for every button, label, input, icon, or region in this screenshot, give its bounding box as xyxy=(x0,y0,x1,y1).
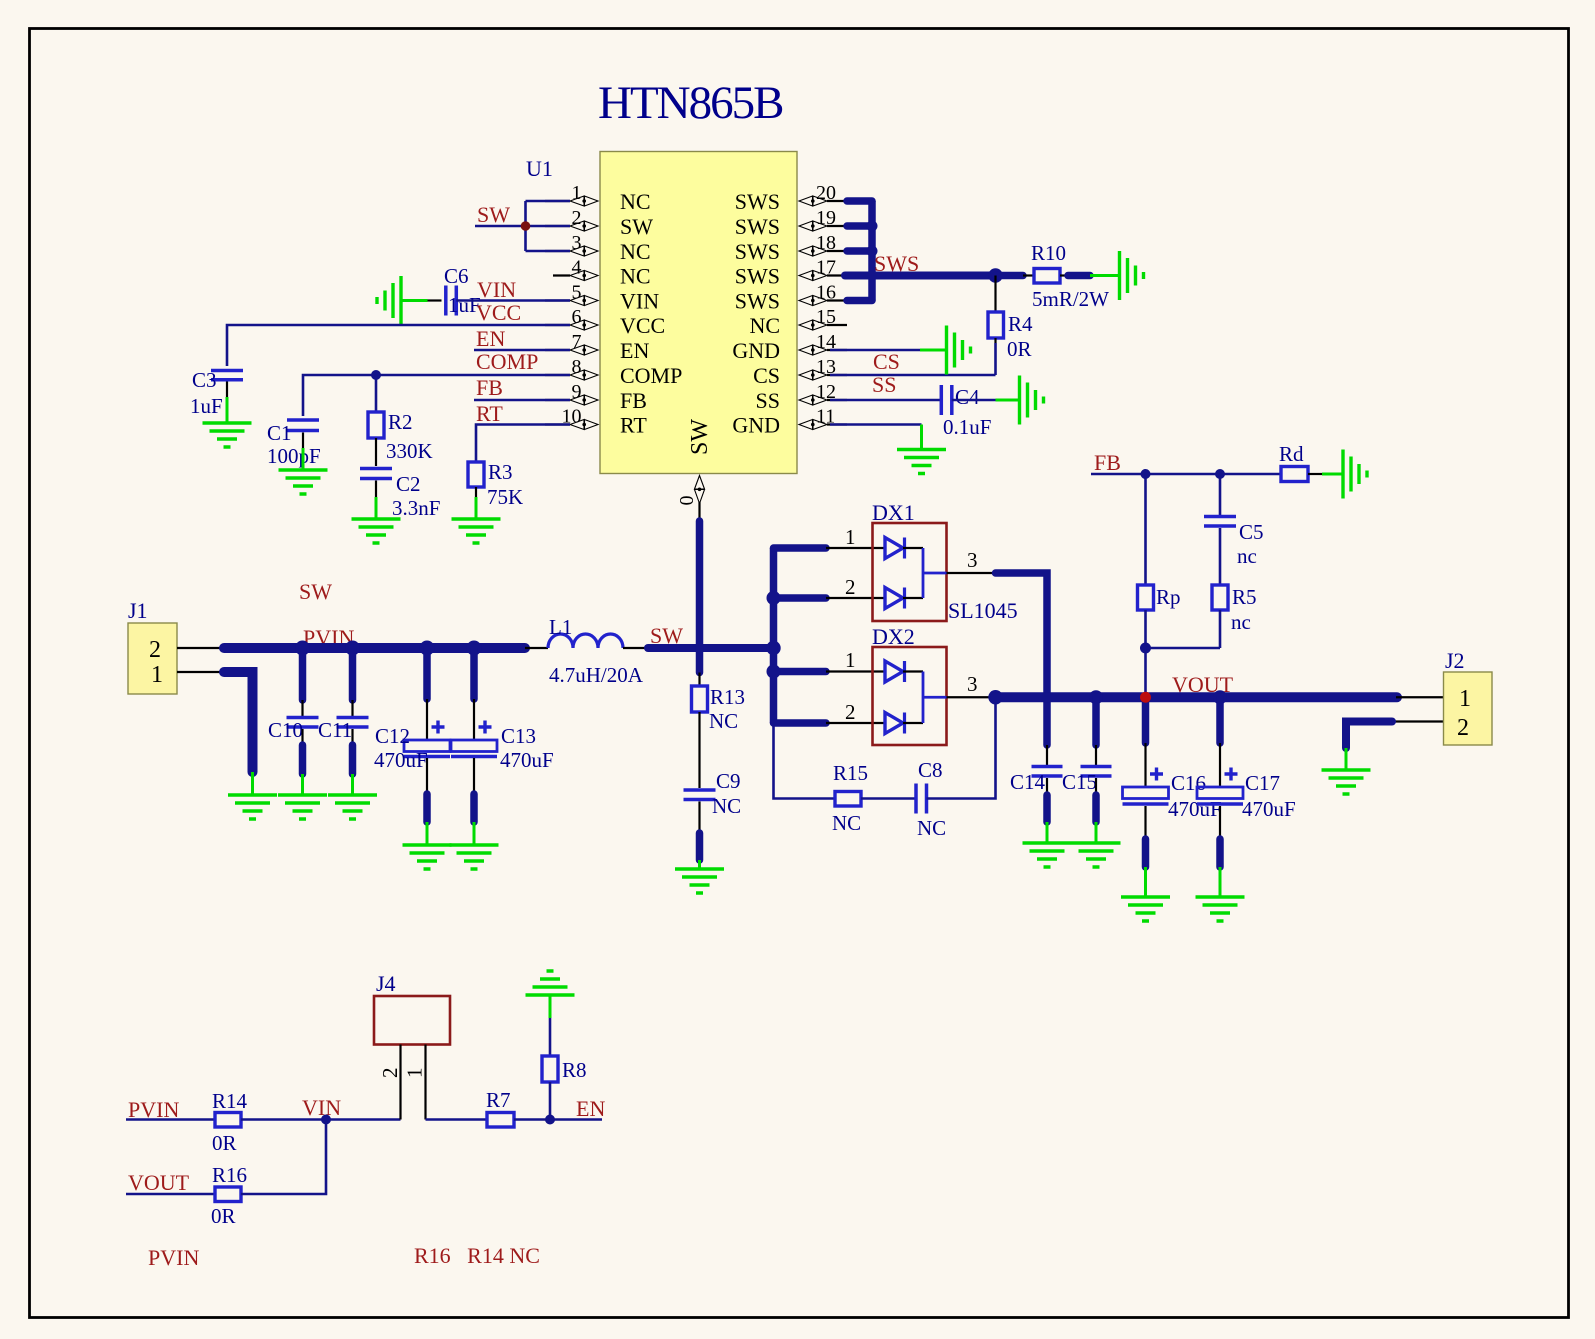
svg-text:FB: FB xyxy=(620,388,647,413)
wire EN pin7 xyxy=(474,326,570,351)
resistor R5 nc xyxy=(1212,585,1257,648)
svg-text:0.1uF: 0.1uF xyxy=(943,415,991,439)
svg-text:R8: R8 xyxy=(562,1058,587,1082)
svg-text:C2: C2 xyxy=(396,472,421,496)
ground (C16) xyxy=(1121,867,1170,921)
svg-text:SWS: SWS xyxy=(735,264,780,289)
svg-text:15: 15 xyxy=(816,306,836,328)
svg-text:3: 3 xyxy=(967,548,978,572)
capacitor C1 100pF xyxy=(267,420,321,468)
svg-text:SWS: SWS xyxy=(735,239,780,264)
ground (C9) xyxy=(675,860,724,893)
pin 6 VCC xyxy=(545,306,665,338)
svg-text:L1: L1 xyxy=(549,615,572,639)
svg-text:COMP: COMP xyxy=(476,349,538,374)
svg-text:1: 1 xyxy=(572,182,582,204)
svg-text:PVIN: PVIN xyxy=(148,1245,199,1270)
pin 20 SWS xyxy=(735,182,847,214)
IC U1 HTN865B xyxy=(526,152,797,474)
capacitor C8 NC xyxy=(916,697,996,840)
ground (C11) xyxy=(328,774,377,819)
svg-text:NC: NC xyxy=(709,709,738,733)
svg-text:100pF: 100pF xyxy=(267,444,321,468)
ground (R10) xyxy=(1090,251,1144,300)
ground (J2) xyxy=(1322,748,1371,794)
ground (C1) xyxy=(279,448,328,494)
wire EN xyxy=(514,1096,605,1125)
svg-text:EN: EN xyxy=(620,338,649,363)
svg-text:SWS: SWS xyxy=(735,214,780,239)
ground (R3) xyxy=(452,497,501,543)
wire GND pin14 xyxy=(830,349,920,352)
svg-text:GND: GND xyxy=(732,338,780,363)
svg-text:DX2: DX2 xyxy=(872,624,915,649)
svg-text:FB: FB xyxy=(1094,450,1121,475)
ground (C10) xyxy=(278,774,327,819)
wire VOUT to R16 xyxy=(126,1193,215,1196)
svg-text:2: 2 xyxy=(378,1068,402,1079)
ground (J1 pin1) xyxy=(228,772,277,819)
svg-text:19: 19 xyxy=(816,207,836,229)
svg-text:470uF: 470uF xyxy=(1242,797,1296,821)
svg-text:17: 17 xyxy=(816,257,836,279)
node SW (to pins 1-3) xyxy=(475,201,570,251)
ground (C3) xyxy=(203,397,252,447)
resistor R4 0R xyxy=(988,276,1033,376)
svg-text:C5: C5 xyxy=(1239,520,1264,544)
pin 1 NC xyxy=(545,182,651,214)
svg-text:R4: R4 xyxy=(1008,312,1033,336)
svg-text:0: 0 xyxy=(676,496,698,506)
svg-text:NC: NC xyxy=(749,313,780,338)
resistor Rd xyxy=(1279,442,1322,482)
wire RT pin10 xyxy=(476,401,570,450)
svg-text:SW: SW xyxy=(299,579,332,604)
ground (pin14) xyxy=(920,326,971,375)
capacitor C16 470uF xyxy=(1123,697,1222,867)
svg-text:2: 2 xyxy=(149,637,161,663)
svg-text:C10: C10 xyxy=(268,718,303,742)
ground (above R8, inverted) xyxy=(526,971,575,1018)
ground (C13) xyxy=(450,822,499,869)
svg-text:1: 1 xyxy=(403,1068,427,1079)
resistor R16 0R xyxy=(211,1163,247,1228)
pin 7 EN xyxy=(545,331,649,363)
resistor R3 75K xyxy=(468,450,523,509)
svg-text:18: 18 xyxy=(816,232,836,254)
svg-text:470uF: 470uF xyxy=(500,748,554,772)
pin 3 NC xyxy=(545,232,651,264)
wire VIN xyxy=(241,1095,401,1125)
svg-text:NC: NC xyxy=(620,239,651,264)
svg-text:C12: C12 xyxy=(375,724,410,748)
capacitor C5 nc xyxy=(1204,474,1264,585)
svg-text:Rp: Rp xyxy=(1156,585,1181,609)
svg-text:7: 7 xyxy=(572,331,582,353)
resistor Rp xyxy=(1138,474,1181,697)
svg-text:470uF: 470uF xyxy=(1168,797,1222,821)
wire CS pin13 xyxy=(830,349,996,375)
wire SW mid xyxy=(648,623,774,648)
svg-text:nc: nc xyxy=(1231,610,1251,634)
svg-text:R13: R13 xyxy=(710,685,745,709)
wire FB xyxy=(1091,450,1281,479)
svg-text:C1: C1 xyxy=(267,421,292,445)
svg-text:9: 9 xyxy=(572,381,582,403)
capacitor C12 470uF xyxy=(374,641,450,823)
svg-text:EN: EN xyxy=(576,1096,605,1121)
svg-text:C8: C8 xyxy=(918,758,943,782)
svg-text:1: 1 xyxy=(845,648,856,672)
pin 17 SWS xyxy=(735,257,847,289)
resistor R15 NC xyxy=(832,761,916,835)
svg-text:R10: R10 xyxy=(1031,241,1066,265)
svg-text:4: 4 xyxy=(572,257,582,279)
svg-text:C3: C3 xyxy=(192,368,217,392)
ground (Rd) xyxy=(1322,450,1367,499)
svg-text:8: 8 xyxy=(572,356,582,378)
svg-text:C16: C16 xyxy=(1171,771,1206,795)
svg-text:0R: 0R xyxy=(212,1131,237,1155)
svg-text:NC: NC xyxy=(917,816,946,840)
ground (C12) xyxy=(403,822,452,869)
capacitor C9 NC xyxy=(684,769,742,860)
svg-text:2: 2 xyxy=(845,575,856,599)
svg-text:330K: 330K xyxy=(386,439,433,463)
svg-text:2: 2 xyxy=(845,700,856,724)
resistor R13 NC xyxy=(692,673,746,789)
svg-text:VCC: VCC xyxy=(476,300,521,325)
svg-text:SL1045: SL1045 xyxy=(948,598,1018,623)
wire J2 pin2 to ground xyxy=(1346,722,1392,749)
ground (C15) xyxy=(1072,822,1121,867)
capacitor C17 470uF xyxy=(1197,690,1296,867)
svg-text:U1: U1 xyxy=(526,156,553,181)
diode DX1 SL1045 xyxy=(826,500,1018,623)
svg-text:3: 3 xyxy=(967,672,978,696)
capacitor C2 3.3nF xyxy=(360,469,440,521)
svg-text:R15: R15 xyxy=(833,761,868,785)
capacitor C15 xyxy=(1062,690,1112,822)
pin 2 SW xyxy=(545,207,653,239)
pin 16 SWS xyxy=(735,282,847,314)
pin 15 NC xyxy=(749,306,847,338)
resistor R2 330K xyxy=(368,375,433,466)
svg-text:J2: J2 xyxy=(1445,648,1465,673)
svg-text:EN: EN xyxy=(476,326,505,351)
capacitor C6 1uF xyxy=(428,264,481,317)
svg-text:C17: C17 xyxy=(1245,771,1280,795)
svg-text:SS: SS xyxy=(756,388,780,413)
svg-text:R7: R7 xyxy=(486,1088,511,1112)
pin 10 RT xyxy=(545,406,647,438)
svg-text:VIN: VIN xyxy=(477,277,516,302)
capacitor C3 1uF xyxy=(190,368,243,418)
pin 18 SWS xyxy=(735,232,847,264)
svg-text:FB: FB xyxy=(476,375,503,400)
resistor R8 xyxy=(542,1018,587,1120)
svg-text:COMP: COMP xyxy=(620,363,682,388)
capacitor C10 xyxy=(268,641,319,775)
svg-text:C13: C13 xyxy=(501,724,536,748)
svg-text:R2: R2 xyxy=(388,410,413,434)
diode DX2 SL1045 xyxy=(826,624,996,745)
svg-text:SW: SW xyxy=(477,202,510,227)
pin 14 GND xyxy=(732,331,847,363)
svg-text:C6: C6 xyxy=(444,264,469,288)
inductor L1 4.7uH/20A xyxy=(525,615,648,687)
svg-text:2: 2 xyxy=(572,207,582,229)
svg-text:C11: C11 xyxy=(318,718,352,742)
capacitor C13 470uF xyxy=(451,641,554,823)
ground (pin11) xyxy=(897,425,946,474)
svg-text:3.3nF: 3.3nF xyxy=(392,496,440,520)
svg-text:0R: 0R xyxy=(211,1204,236,1228)
svg-text:R3: R3 xyxy=(488,460,513,484)
connector J1 xyxy=(128,598,224,694)
svg-text:SW: SW xyxy=(687,419,713,455)
wire PVIN to R14 xyxy=(126,1118,215,1121)
ground (C6) xyxy=(377,276,428,325)
wire Rp-R5 bottom link xyxy=(1146,647,1221,650)
pin 8 COMP xyxy=(545,356,682,388)
svg-text:nc: nc xyxy=(1237,544,1257,568)
svg-text:C14: C14 xyxy=(1010,770,1046,794)
wire DX1 out to VOUT xyxy=(996,573,1048,745)
capacitor C14 xyxy=(1010,745,1063,822)
svg-text:GND: GND xyxy=(732,413,780,438)
svg-text:DX1: DX1 xyxy=(872,500,915,525)
svg-text:NC: NC xyxy=(620,189,651,214)
svg-text:0R: 0R xyxy=(1007,337,1032,361)
svg-text:4.7uH/20A: 4.7uH/20A xyxy=(549,663,644,687)
svg-text:R16: R16 xyxy=(212,1163,247,1187)
svg-text:J1: J1 xyxy=(128,598,148,623)
svg-text:1: 1 xyxy=(151,662,163,688)
wire PVIN xyxy=(224,625,525,650)
pin 0 SW bottom xyxy=(676,419,713,521)
svg-text:J4: J4 xyxy=(376,971,396,996)
resistor R10 5mR/2W xyxy=(996,241,1110,311)
svg-text:6: 6 xyxy=(572,306,582,328)
wire J4 pin1 to R7 xyxy=(426,1118,488,1121)
svg-text:470uF: 470uF xyxy=(374,748,428,772)
wire J1 pin1 to ground xyxy=(224,672,253,772)
wire R15/C8 branch xyxy=(774,723,836,799)
svg-text:SS: SS xyxy=(872,372,896,397)
pin 9 FB xyxy=(545,381,647,413)
svg-text:CS: CS xyxy=(753,363,780,388)
svg-text:NC: NC xyxy=(712,794,741,818)
svg-text:NC: NC xyxy=(832,811,861,835)
node DX2 out junction xyxy=(988,690,1002,704)
svg-text:1: 1 xyxy=(1459,686,1471,712)
pin 4 NC xyxy=(553,257,651,289)
svg-text:SW: SW xyxy=(620,214,653,239)
svg-text:SWS: SWS xyxy=(735,189,780,214)
ground (C2) xyxy=(352,497,401,543)
svg-text:HTN865B: HTN865B xyxy=(598,77,783,129)
svg-text:R14: R14 xyxy=(212,1089,248,1113)
wire VIN pin5 xyxy=(456,277,570,302)
node SW branch junction xyxy=(766,641,780,655)
node COMP junction xyxy=(371,370,381,380)
svg-text:16: 16 xyxy=(816,282,836,304)
connector J4 xyxy=(374,971,450,1120)
wire GND pin11 xyxy=(830,423,922,426)
svg-text:VOUT: VOUT xyxy=(128,1170,190,1195)
svg-text:Rd: Rd xyxy=(1279,442,1304,466)
pin 19 SWS xyxy=(735,207,847,239)
connector J2 xyxy=(1392,648,1492,745)
svg-text:75K: 75K xyxy=(487,485,523,509)
svg-text:R5: R5 xyxy=(1232,585,1257,609)
wire FB pin9 xyxy=(474,375,570,400)
ground (C4) xyxy=(996,376,1044,425)
node VOUT red junction xyxy=(1140,692,1151,703)
ground (C14) xyxy=(1023,822,1072,867)
svg-text:1uF: 1uF xyxy=(190,394,223,418)
svg-text:20: 20 xyxy=(816,182,836,204)
wire DX bus xyxy=(767,548,827,723)
pin 11 GND xyxy=(732,406,847,438)
wire SWS main xyxy=(845,251,996,276)
node SWS junction xyxy=(988,268,1002,282)
svg-text:2: 2 xyxy=(1457,715,1469,741)
wire SS pin12 xyxy=(830,372,941,400)
svg-text:CS: CS xyxy=(873,349,900,374)
svg-text:C4: C4 xyxy=(955,385,980,409)
capacitor C11 xyxy=(318,641,369,775)
wire SW vertical from IC xyxy=(696,521,704,673)
svg-text:VIN: VIN xyxy=(620,289,659,314)
pin 12 SS xyxy=(756,381,847,413)
svg-text:VCC: VCC xyxy=(620,313,665,338)
resistor R14 0R xyxy=(212,1089,248,1155)
svg-text:R16 R14 NC: R16 R14 NC xyxy=(414,1243,540,1268)
svg-text:5mR/2W: 5mR/2W xyxy=(1032,287,1109,311)
capacitor C4 0.1uF xyxy=(941,385,995,439)
svg-text:1: 1 xyxy=(845,525,856,549)
resistor R7 xyxy=(486,1088,514,1127)
pin 5 VIN xyxy=(545,282,659,314)
svg-text:C15: C15 xyxy=(1062,770,1097,794)
wire R16 to VIN node xyxy=(241,1120,326,1195)
wire VOUT xyxy=(996,672,1398,697)
svg-text:3: 3 xyxy=(572,232,582,254)
ground (C17) xyxy=(1196,867,1245,921)
svg-text:RT: RT xyxy=(620,413,647,438)
svg-text:C9: C9 xyxy=(716,769,741,793)
pin 13 CS xyxy=(753,356,847,388)
wire COMP pin8 xyxy=(303,349,570,416)
svg-text:NC: NC xyxy=(620,264,651,289)
wire SWS bus xyxy=(847,201,878,301)
svg-text:RT: RT xyxy=(476,401,503,426)
svg-text:SWS: SWS xyxy=(735,289,780,314)
svg-text:VIN: VIN xyxy=(302,1095,341,1120)
wire VCC pin6 xyxy=(227,300,570,366)
svg-text:5: 5 xyxy=(572,282,582,304)
